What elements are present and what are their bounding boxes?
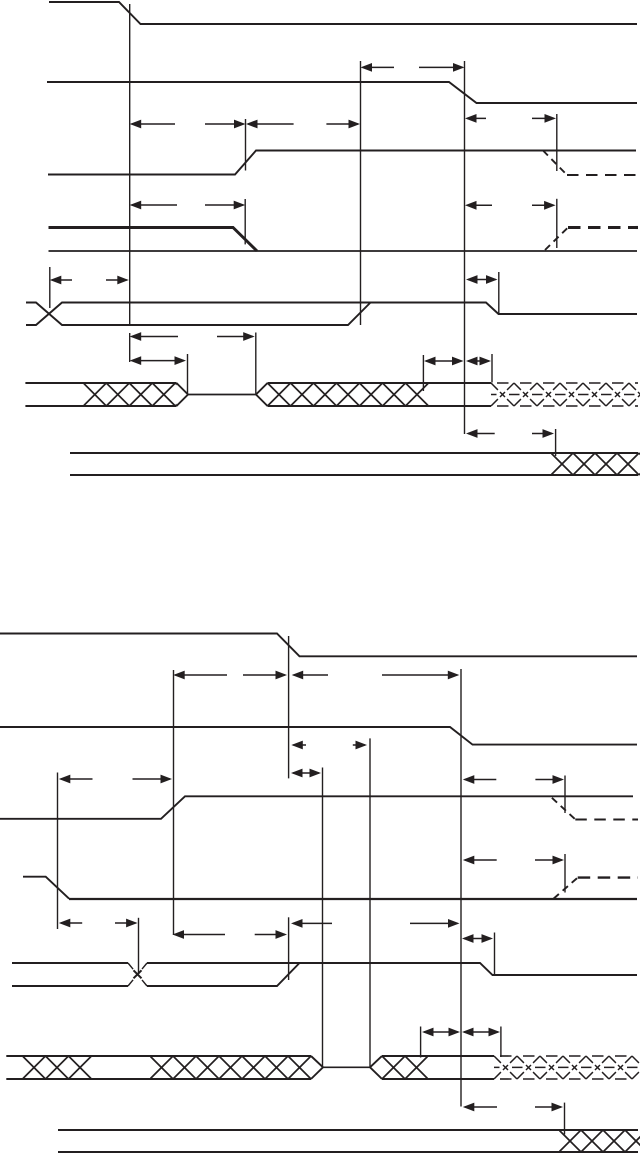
bus T7 hatch block bbox=[551, 453, 640, 475]
dimension E1b (291.7 to 459.3) bbox=[292, 671, 460, 680]
signal B4 low level line bbox=[69, 898, 637, 900]
bus T6 hatch block 1 bbox=[83, 383, 198, 406]
dimension D5 (129.7 to 245.2) bbox=[130, 201, 246, 210]
tick at x=129.7 connector bbox=[129, 333, 131, 362]
bus B6 lines left segment bbox=[6, 1056, 311, 1079]
reference line at x=360.5 bbox=[360, 61, 362, 325]
bus B7 hatch block bbox=[559, 1130, 640, 1152]
dimension D13 (466 to 554) bbox=[466, 429, 554, 438]
bus T6 converge to mid line bbox=[177, 383, 189, 406]
reference line at x=464.5 bbox=[464, 61, 466, 434]
dimension D11 (424 to 463.5) bbox=[424, 357, 464, 366]
tick at x=420.6 bbox=[420, 1027, 422, 1058]
bus B5 break x mark bbox=[134, 970, 142, 978]
signal B3 waveform (low, rising, high) bbox=[0, 796, 633, 819]
reference line at x=57.5 bbox=[57, 773, 59, 930]
tick at x=423.4 bbox=[422, 355, 424, 391]
dimension D4 (465 to 556) bbox=[465, 114, 556, 123]
reference line at x=322.5 bbox=[322, 768, 324, 1068]
dimension E8 (172.5 to 287) bbox=[173, 930, 288, 939]
bus B6 converge to mid line bbox=[311, 1056, 323, 1079]
dimension E3 (291 to 321) bbox=[291, 769, 321, 778]
bus T6 dashed lines right segment bbox=[491, 383, 638, 406]
signal T1 waveform (high then falling to low) bbox=[49, 2, 637, 24]
tick at x=138.5 bbox=[138, 918, 140, 974]
dimension D12 (466 to 491) bbox=[466, 357, 491, 366]
signal T3 waveform (low, rising, high) bbox=[48, 151, 636, 175]
dimension D8 (466 to 497.5) bbox=[466, 275, 498, 284]
signal B3 dashed alternate fall branch bbox=[552, 798, 638, 820]
dimension E1a (173.2 to 287) bbox=[173, 671, 287, 680]
tick at x=245.2 lower bbox=[244, 199, 246, 244]
signal B2 waveform (high then falling to low) bbox=[0, 727, 637, 745]
bus B6 hatch block 2 bbox=[150, 1056, 311, 1079]
reference line at x=129.7 bbox=[129, 4, 131, 325]
dimension E2 (291.3 to 367) bbox=[291, 741, 367, 750]
bus T6 hatch block 2 bbox=[268, 383, 429, 406]
dimension D2 (129.7 to 245.5) bbox=[130, 120, 246, 129]
dimension D6 (465 to 555.6) bbox=[465, 201, 556, 210]
tick at x=565 upper bbox=[564, 776, 566, 814]
reference line at x=173.5 bbox=[173, 670, 175, 935]
bus B7 lines bbox=[58, 1130, 638, 1152]
bus B6 lines second segment bbox=[382, 1056, 494, 1079]
tick at x=565 lower bbox=[564, 854, 566, 893]
bus B6 dashed mid line bbox=[494, 1066, 638, 1068]
bus T6 lines second segment bbox=[268, 383, 492, 406]
dimension D7 (49.8 to 128.8) bbox=[50, 276, 129, 285]
reference line at x=288.6 upper bbox=[288, 636, 290, 778]
signal T4 dashed alternate rise branch (thick) bbox=[545, 228, 638, 251]
bus T6 data lines left segment bbox=[25, 383, 176, 406]
bus B6 dashed hatch block bbox=[494, 1056, 640, 1079]
bus B6 hatch block 1 bbox=[23, 1056, 92, 1079]
bus T6 dashed mid line bbox=[491, 394, 638, 396]
tick at x=245.5 upper bbox=[245, 119, 247, 171]
dimension E11b (462 to 500) bbox=[462, 1028, 500, 1037]
signal T2 waveform (high then falling to low) bbox=[47, 82, 637, 103]
dimension E7 (58.8 to 137.6) bbox=[59, 919, 138, 928]
bus B5 break crossover diagonals bbox=[128, 963, 147, 986]
dimension D9 (129.7 to 254.7) bbox=[130, 332, 255, 341]
signal B4 dashed alternate rise branch bbox=[554, 878, 638, 899]
bus T6 mid line bbox=[188, 394, 256, 396]
dimension E12 (462.8 to 563) bbox=[463, 1103, 563, 1112]
tick at x=492 bbox=[491, 354, 493, 383]
tick at x=49.8 bbox=[49, 267, 51, 308]
bus T5 address waveform with crossover bbox=[26, 303, 637, 326]
bus B6 mid line bbox=[323, 1066, 370, 1068]
bus T7 lines bbox=[70, 453, 638, 475]
bus T6 diverge from mid line bbox=[256, 383, 268, 406]
bus T6 dashed hatch block bbox=[491, 383, 640, 406]
dimension D10 (129.7 to 186) bbox=[130, 356, 186, 365]
tick at x=500.9 bbox=[500, 1027, 502, 1058]
signal T4 low level line bbox=[49, 250, 638, 252]
dimension E6 (462.8 to 564) bbox=[463, 856, 564, 865]
tick at x=555.6 (row7) bbox=[555, 429, 557, 456]
dimension E11a (422 to 460) bbox=[422, 1028, 460, 1037]
tick at x=494.5 bbox=[494, 933, 496, 976]
tick at x=498.8 bbox=[498, 272, 500, 313]
tick at x=187.5 bbox=[187, 354, 189, 394]
tick at x=564.5 (row7) bbox=[564, 1103, 566, 1135]
reference line at x=370 bbox=[369, 738, 371, 1067]
reference line at x=461 bbox=[460, 669, 462, 1107]
dimension E4 (58.8 to 172) bbox=[59, 775, 172, 784]
tick at x=255.8 bbox=[255, 333, 257, 394]
tick at x=556.8 upper bbox=[556, 114, 558, 171]
dimension D1 (360.5 to 464.5) bbox=[361, 63, 465, 72]
bus B6 diverge from mid line bbox=[370, 1056, 382, 1079]
reference line at x=288.6 lower bbox=[288, 917, 290, 980]
bus B5 waveform with break and transition bbox=[12, 963, 637, 986]
bus B6 hatch block 3 bbox=[382, 1056, 428, 1079]
signal T3 dashed alternate fall branch bbox=[543, 151, 638, 176]
signal B4 high stub with falling edge bbox=[23, 877, 69, 899]
dimension E9 (291 to 459.5) bbox=[291, 919, 460, 928]
signal B1 waveform (high then falling to low) bbox=[0, 634, 637, 657]
signal T4 thick high segment with falling edge bbox=[49, 228, 258, 252]
dimension E5 (462.8 to 564) bbox=[463, 775, 564, 784]
tick at x=556.8 lower bbox=[556, 199, 558, 248]
dimension D3 (246 to 360) bbox=[246, 120, 360, 129]
dimension E10 (462 to 493) bbox=[462, 934, 493, 943]
bus B6 dashed lines right segment bbox=[494, 1056, 638, 1079]
